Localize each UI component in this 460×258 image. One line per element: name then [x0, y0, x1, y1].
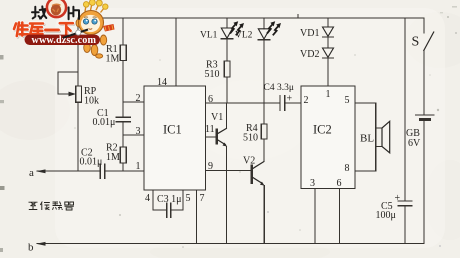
svg-text:100μ: 100μ — [376, 210, 396, 221]
svg-text:S: S — [412, 35, 420, 50]
svg-text:6: 6 — [208, 94, 213, 105]
svg-text:IC1: IC1 — [163, 123, 182, 137]
svg-text:11: 11 — [205, 124, 215, 135]
svg-text:2: 2 — [136, 93, 141, 104]
svg-text:VL2: VL2 — [235, 31, 253, 41]
svg-text:14: 14 — [157, 77, 167, 88]
svg-text:6: 6 — [337, 178, 342, 189]
svg-text:2: 2 — [304, 95, 309, 106]
svg-text:5: 5 — [186, 193, 191, 204]
svg-text:1: 1 — [136, 161, 141, 172]
svg-text:b: b — [28, 242, 34, 254]
svg-text:4: 4 — [145, 193, 150, 204]
svg-text:BL: BL — [360, 133, 374, 145]
svg-text:a: a — [29, 167, 34, 179]
svg-text:1M: 1M — [106, 54, 120, 65]
svg-text:0.01μ: 0.01μ — [93, 117, 116, 128]
svg-text:9: 9 — [208, 161, 213, 172]
svg-text:1: 1 — [326, 89, 331, 100]
svg-text:3: 3 — [310, 178, 315, 189]
svg-text:6V: 6V — [408, 138, 421, 149]
svg-text:8: 8 — [345, 163, 350, 174]
svg-text:3: 3 — [136, 126, 141, 137]
svg-text:0.01μ: 0.01μ — [80, 157, 103, 168]
svg-text:510: 510 — [243, 133, 258, 144]
svg-text:510: 510 — [205, 69, 220, 80]
svg-text:V2: V2 — [243, 156, 255, 167]
svg-text:V1: V1 — [211, 112, 223, 123]
svg-text:+: + — [395, 193, 401, 204]
svg-text:10k: 10k — [84, 96, 99, 107]
svg-text:C4 3.3μ: C4 3.3μ — [264, 83, 294, 93]
svg-text:IC2: IC2 — [313, 123, 332, 137]
svg-text:VD1: VD1 — [300, 28, 319, 39]
svg-text:5: 5 — [345, 95, 350, 106]
svg-text:1M: 1M — [106, 152, 120, 163]
svg-text:+: + — [287, 94, 293, 105]
svg-text:7: 7 — [200, 193, 205, 204]
svg-text:VL1: VL1 — [200, 31, 218, 41]
svg-text:C3 1μ: C3 1μ — [157, 194, 182, 205]
svg-text:VD2: VD2 — [300, 49, 319, 60]
